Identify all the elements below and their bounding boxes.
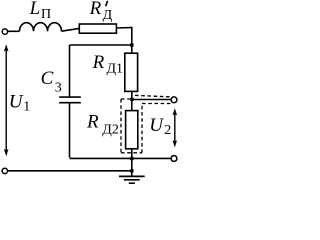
wire capacitor branch upper [69, 45, 71, 96]
wire Rd1 to Rd2 [131, 91, 133, 110]
dashed cable upper line [135, 95, 172, 97]
wire terminal to inductor [8, 30, 20, 32]
svg-text:Д1: Д1 [107, 61, 124, 76]
terminal top-left input [2, 29, 7, 34]
wire lower bottom rail [8, 170, 132, 172]
svg-text:C: C [41, 68, 54, 89]
svg-text:U: U [149, 115, 164, 136]
wire Rd2 to bottom rail [131, 149, 133, 176]
svg-text:L: L [29, 0, 41, 19]
label L_P inductor [9, 0, 172, 138]
svg-text:П: П [41, 7, 51, 22]
svg-text:R: R [92, 52, 105, 73]
node D junction dot lower rail [130, 169, 133, 172]
capacitor C3 top plate [59, 96, 81, 98]
voltage arrow U1 [5, 46, 7, 155]
resistor Rd2 box [126, 111, 138, 149]
wire R'd to corner and down [116, 28, 131, 54]
voltage arrow U2 [174, 110, 176, 146]
ground [119, 176, 145, 183]
svg-text:R: R [86, 112, 99, 133]
wire capacitor branch lower [69, 104, 71, 158]
svg-text:Д: Д [103, 8, 113, 23]
node B junction dot on dashed screen [130, 98, 133, 101]
svg-text:1: 1 [23, 100, 30, 115]
inductor L_P [20, 23, 62, 32]
dashed cable lower line [142, 103, 172, 105]
node C junction dot upper rail [130, 157, 133, 160]
wire node B to terminal top-right [132, 99, 171, 101]
wire upper bottom rail to terminal [70, 157, 172, 159]
svg-text:2: 2 [164, 123, 171, 138]
svg-text:R: R [89, 0, 102, 19]
dashed screen box around Rd2 [121, 99, 142, 153]
capacitor C3 bottom plate [59, 102, 81, 104]
node A junction dot [130, 43, 133, 46]
terminal bottom-left input [2, 168, 7, 173]
terminal bottom-right output [171, 156, 177, 162]
terminal top-right output [171, 97, 177, 103]
svg-text:Д2: Д2 [102, 122, 119, 137]
wire node A to capacitor branch [70, 44, 132, 46]
wire inductor to resistor R'd [62, 28, 80, 31]
resistor R'd box [79, 24, 116, 33]
prime mark of R'd [106, 1, 108, 6]
resistor Rd1 box [125, 53, 138, 91]
svg-text:U: U [9, 91, 24, 112]
svg-text:3: 3 [55, 80, 62, 95]
